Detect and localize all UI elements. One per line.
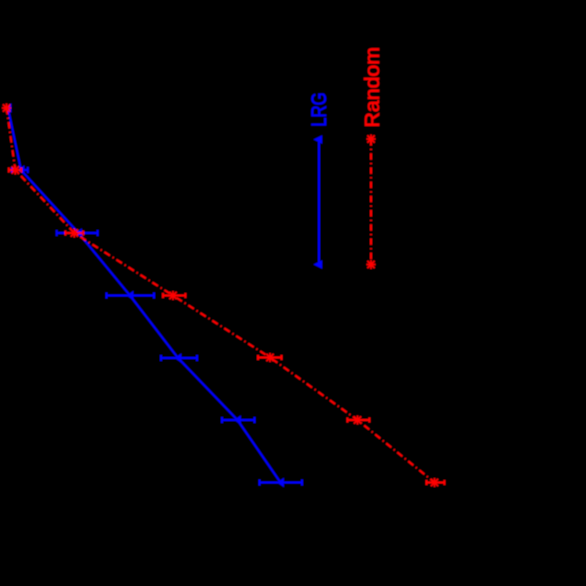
LRG error bar point 3 xyxy=(107,293,155,299)
legend Random line (vertical red dash-dot) xyxy=(370,139,372,265)
LRG error bar point 2b xyxy=(57,230,98,236)
svg-text:Random: Random xyxy=(362,47,384,128)
Random marker point 1 (asterisk) xyxy=(2,104,11,113)
Random marker point 2 (asterisk) xyxy=(11,166,20,175)
LRG marker point 1 (triangle) xyxy=(5,103,12,113)
LRG marker point 2 (triangle) xyxy=(18,165,25,175)
legend Random top marker (asterisk) xyxy=(367,135,376,144)
Random marker point 5 (asterisk) xyxy=(353,416,362,425)
legend Random bottom marker (asterisk) xyxy=(367,260,376,269)
LRG marker point 4 (triangle) xyxy=(175,353,182,363)
Random error bar point 4 xyxy=(258,355,282,360)
LRG error bar point 2 xyxy=(12,167,28,173)
LRG error bar point 6 xyxy=(260,480,303,486)
Random error bar point 5 xyxy=(347,418,369,423)
LRG curve (blue solid polyline) xyxy=(8,108,281,483)
Random marker point 3 (asterisk) xyxy=(169,291,178,300)
LRG marker point 6 (triangle) xyxy=(277,478,284,488)
LRG marker point 5 (triangle) xyxy=(234,415,241,425)
Random error bar point 2b xyxy=(65,231,83,236)
legend LRG line (vertical blue) xyxy=(318,140,320,265)
Random error bar point 6 xyxy=(427,480,445,485)
Random marker point 2b (asterisk) xyxy=(70,229,79,238)
LRG marker point 3 (triangle) xyxy=(127,291,134,301)
legend LRG top marker (triangle) xyxy=(313,135,322,144)
Random error bar point 2 xyxy=(9,168,21,173)
Random error bar point 3 xyxy=(163,293,185,298)
LRG error bar point 4 xyxy=(161,355,197,361)
Random marker point 6 (asterisk) xyxy=(430,478,439,487)
svg-text:LRG: LRG xyxy=(307,92,331,127)
legend LRG bottom marker (triangle) xyxy=(313,260,322,269)
LRG marker point 2b (triangle) xyxy=(75,228,82,238)
LRG error bar point 5 xyxy=(222,417,255,423)
Random curve (red dash-dot polyline) xyxy=(7,108,435,483)
Random marker point 4 (asterisk) xyxy=(266,353,275,362)
